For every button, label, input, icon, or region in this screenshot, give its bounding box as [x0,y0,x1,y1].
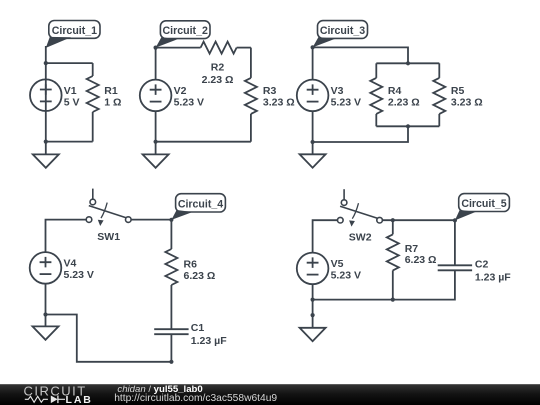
wire [375,63,377,78]
wire [92,63,94,76]
svg-text:R2: R2 [211,61,225,73]
voltage source V1 [30,79,62,111]
label V3 5.23 V [331,85,361,108]
svg-text:6.23 Ω: 6.23 Ω [184,270,216,282]
node label Circuit_4 [171,194,225,220]
wire [376,125,439,127]
resistor R4 [370,78,382,114]
wire [375,114,377,126]
node junction [311,298,315,302]
svg-text:1.23 µF: 1.23 µF [191,335,227,347]
label V1 5 V [64,85,80,108]
svg-text:Circuit_3: Circuit_3 [320,25,365,37]
wire [46,141,93,143]
wire [92,112,94,142]
node label Circuit_5 [455,194,510,221]
resistor R7 [387,234,399,270]
footer bar [0,384,540,405]
wire [454,220,456,265]
svg-text:2.23 Ω: 2.23 Ω [202,74,234,86]
wire [170,220,172,249]
svg-text:C2: C2 [475,259,489,271]
wire [46,62,93,64]
wire [376,62,439,64]
wire [312,111,314,154]
wire [250,48,252,78]
wire [237,47,251,49]
svg-text:R4: R4 [388,85,402,97]
ground [300,154,326,167]
capacitor C2 [438,265,472,270]
wire [156,47,201,49]
node label Circuit_3 [313,21,368,48]
resistor R1 [87,76,99,112]
node junction [154,140,158,144]
svg-text:1.23 µF: 1.23 µF [475,272,511,284]
node junction [154,46,158,50]
node junction [406,124,410,128]
svg-text:Circuit_5: Circuit_5 [461,198,506,210]
label R3 3.23 Ohm [263,85,295,108]
node junction [391,218,395,222]
svg-text:C1: C1 [191,322,205,334]
svg-text:5.23 V: 5.23 V [331,270,361,282]
svg-text:R3: R3 [263,85,277,97]
label R2 2.23 Ohm [202,61,234,86]
node junction [43,312,47,316]
capacitor C1 [154,329,188,334]
wire [45,284,47,327]
svg-text:R7: R7 [405,243,419,255]
svg-text:SW1: SW1 [97,231,120,243]
svg-text:V3: V3 [331,85,344,97]
label V2 5.23 V [174,85,204,108]
svg-text:SW2: SW2 [349,232,372,244]
node junction [391,298,395,302]
resistor R6 [165,249,177,285]
wire [438,63,440,78]
svg-text:1 Ω: 1 Ω [104,96,121,108]
node junction [44,61,48,65]
label R4 2.23 Ohm [388,85,420,108]
node junction [169,218,173,222]
svg-text:V4: V4 [64,258,77,270]
svg-text:R5: R5 [451,85,465,97]
ground [300,328,326,341]
ground [143,154,169,167]
svg-text:LAB: LAB [66,394,93,405]
svg-text:3.23 Ω: 3.23 Ω [263,96,295,108]
voltage source V3 [297,80,329,112]
wire [156,141,251,143]
wire [46,220,87,253]
ground [33,326,59,339]
wire [155,48,157,80]
voltage source V2 [140,80,172,112]
svg-text:http://circuitlab.com/c3ac558w: http://circuitlab.com/c3ac558w6t4u9 [114,393,277,404]
footer text [114,384,277,404]
wire [46,315,172,362]
svg-text:Circuit_4: Circuit_4 [178,198,223,210]
label R5 3.23 Ohm [451,85,483,108]
switch SW2 [338,189,383,226]
wire [392,220,394,234]
wire [170,334,172,362]
node junction [311,313,315,317]
wire [155,111,157,154]
svg-text:2.23 Ω: 2.23 Ω [388,96,420,108]
voltage source V4 [30,252,62,284]
wire [313,270,455,299]
svg-text:5.23 V: 5.23 V [174,96,204,108]
node junction [44,140,48,144]
wire [170,285,172,329]
node junction [169,360,173,364]
wire [313,126,408,142]
svg-text:5 V: 5 V [64,96,80,108]
voltage source V5 [297,253,329,285]
resistor R2 [201,42,237,54]
label C2 1.23 uF [475,259,511,284]
wire [313,47,408,63]
wire [392,270,394,299]
resistor R5 [433,78,445,114]
label V4 5.23 V [64,258,94,281]
svg-text:V5: V5 [331,258,344,270]
svg-text:R1: R1 [104,85,118,97]
label R7 6.23 Ohm [405,243,437,266]
ground [33,154,59,167]
svg-text:V1: V1 [64,85,77,97]
node junction [311,140,315,144]
svg-text:3.23 Ω: 3.23 Ω [451,96,483,108]
svg-text:V2: V2 [174,85,187,97]
wire [313,220,338,252]
label V5 5.23 V [331,258,361,281]
switch SW1 [86,189,131,226]
wire [131,219,171,221]
svg-text:5.23 V: 5.23 V [331,96,361,108]
wire [250,114,252,142]
CircuitLab logo [24,383,93,405]
label R6 6.23 Ohm [184,259,216,282]
node junction [406,61,410,65]
wire [438,114,440,126]
node label Circuit_1 [46,21,100,48]
node label Circuit_2 [156,21,210,48]
node junction [311,45,315,49]
svg-text:Circuit_1: Circuit_1 [52,25,97,37]
svg-text:Circuit_2: Circuit_2 [163,25,208,37]
wire [382,219,455,221]
svg-text:R6: R6 [184,259,198,271]
label C1 1.23 uF [191,322,227,347]
wire [312,47,314,79]
svg-text:5.23 V: 5.23 V [64,269,94,281]
node junction [453,218,457,222]
svg-text:6.23 Ω: 6.23 Ω [405,254,437,266]
resistor R3 [245,78,257,114]
wire [45,46,47,154]
wire [312,284,314,328]
label R1 1 Ohm [104,85,121,108]
